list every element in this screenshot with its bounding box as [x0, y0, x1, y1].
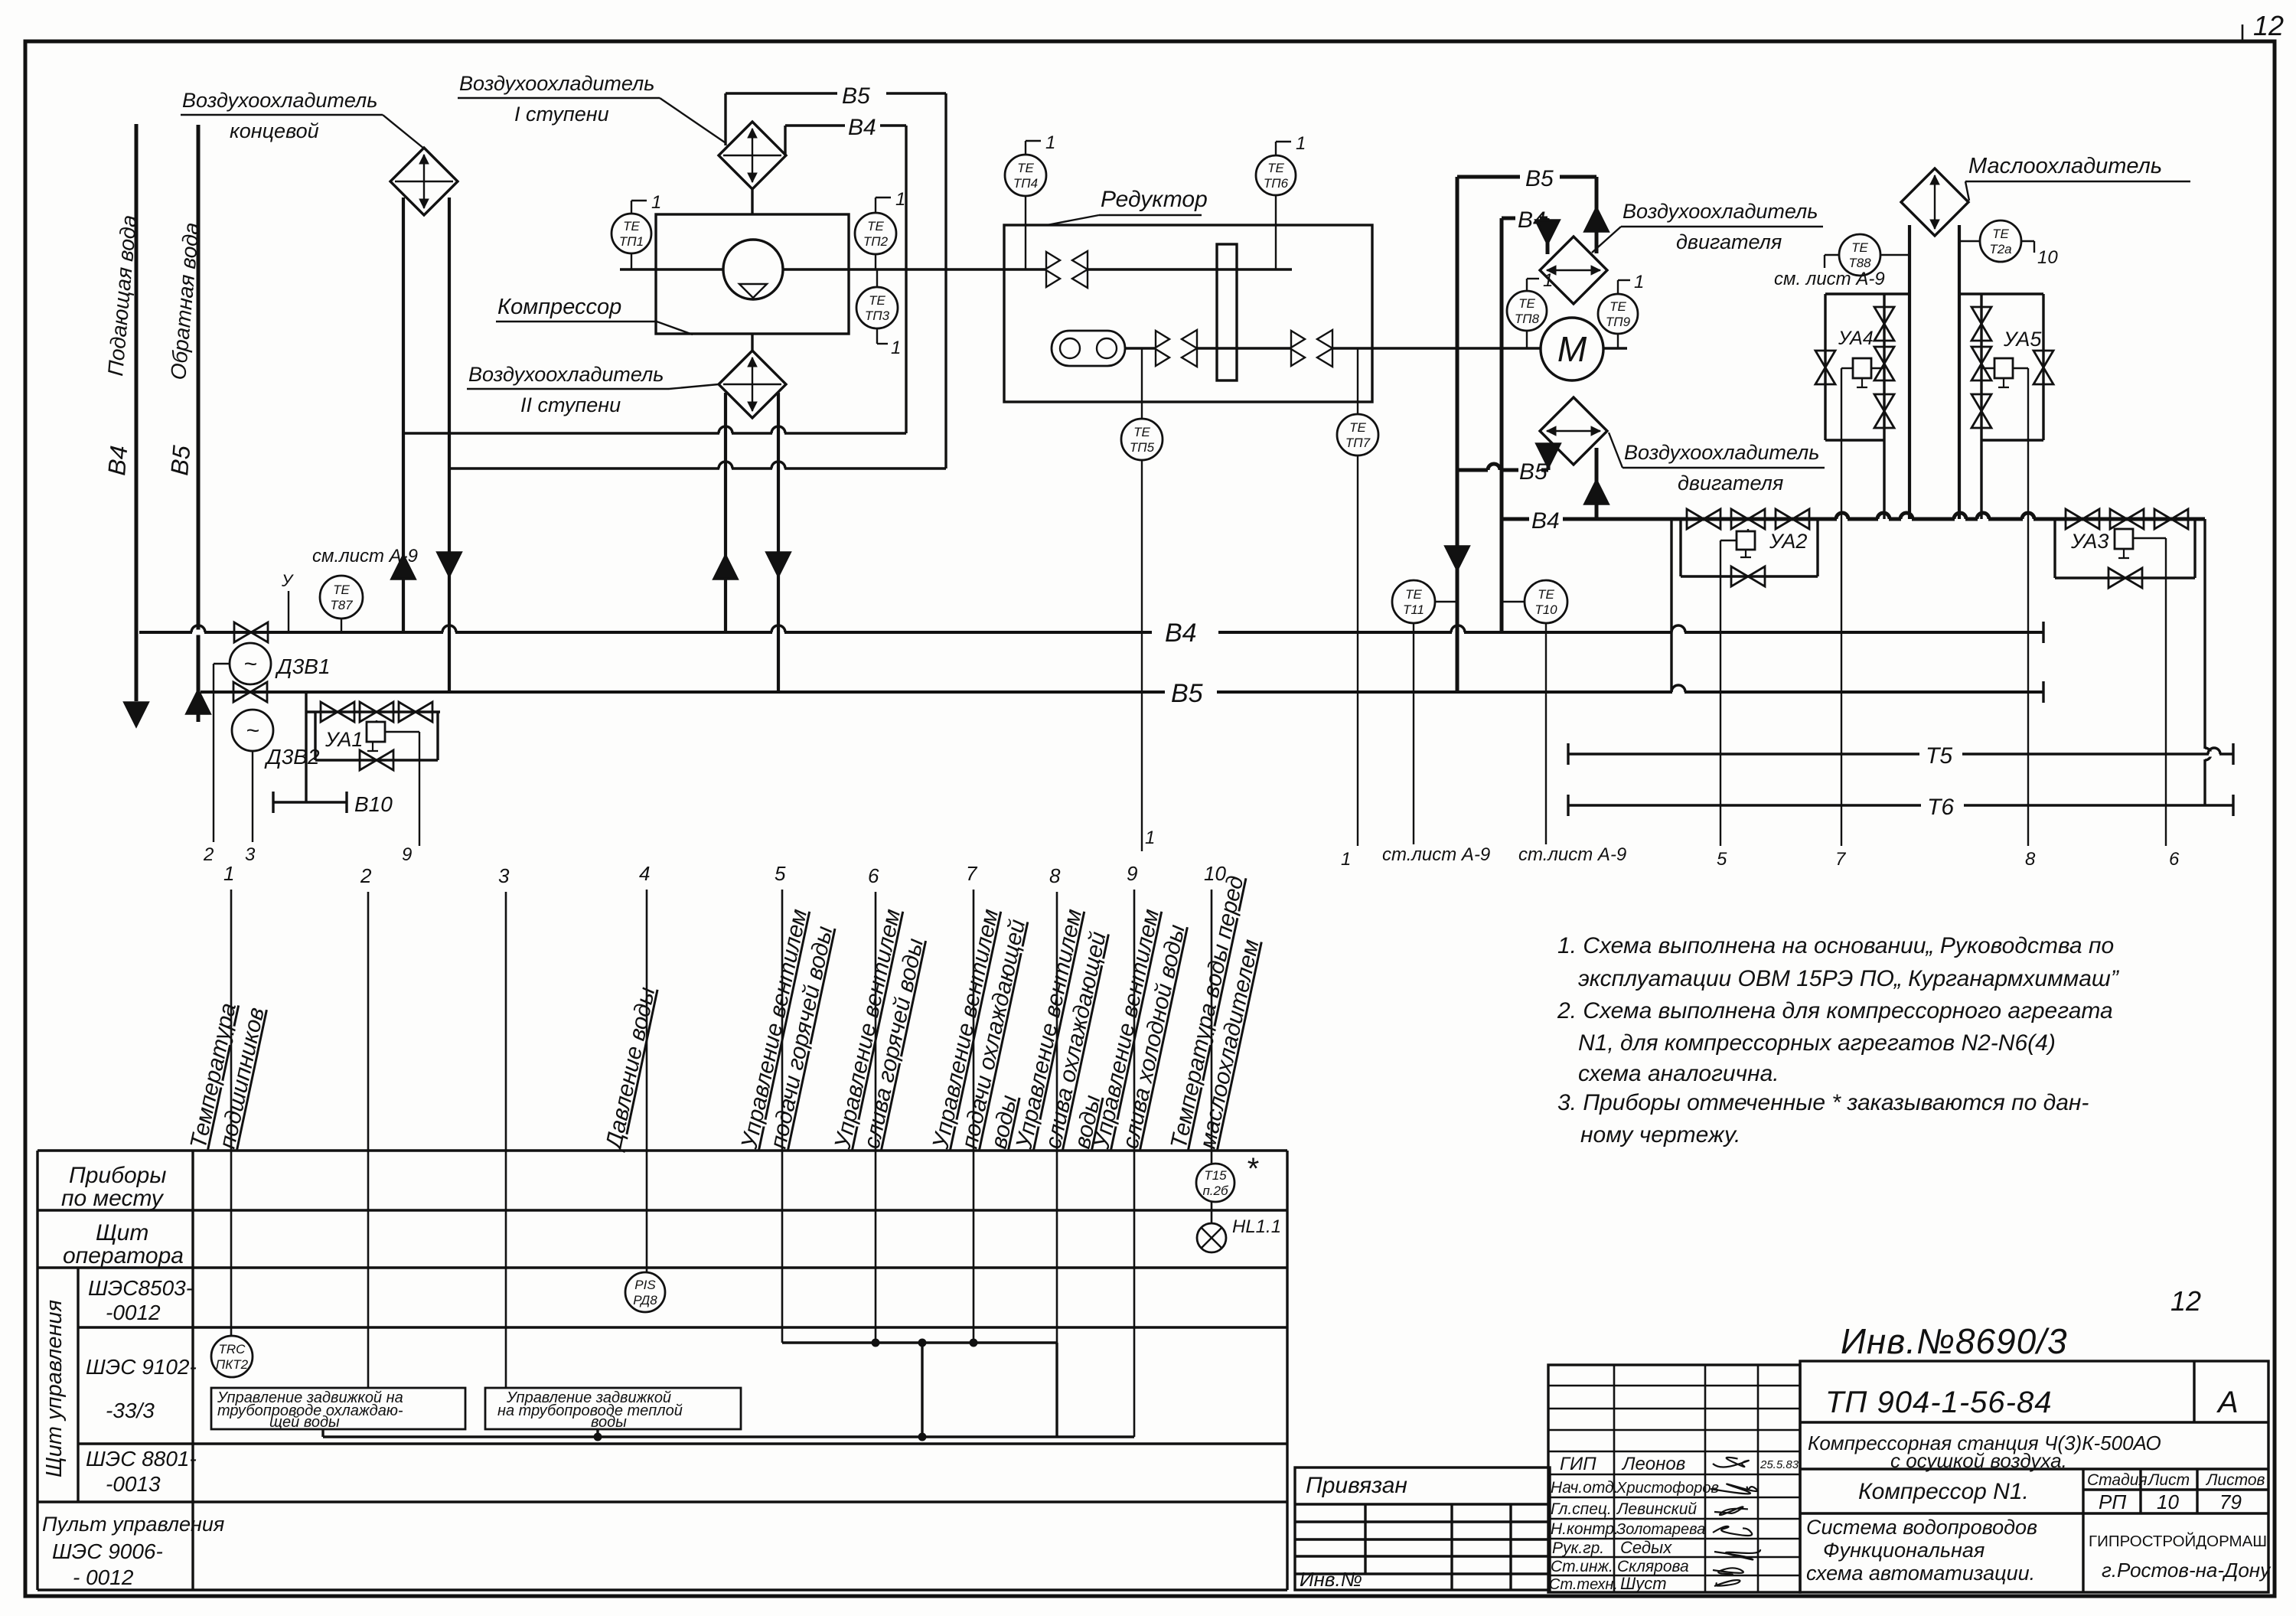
svg-text:ТЕ: ТЕ — [1851, 240, 1868, 255]
signal column 6 — [875, 892, 877, 1343]
svg-text:Система водопроводов: Система водопроводов — [1806, 1516, 2037, 1539]
svg-text:Т2а: Т2а — [1989, 242, 2011, 256]
sensor TE ТП1 — [612, 214, 651, 253]
sensor TE Т88 — [1839, 234, 1880, 276]
УА3 corner riser down — [2203, 519, 2206, 805]
arrow up on pipe 948 — [714, 556, 737, 579]
signal column 7 — [973, 890, 975, 1343]
valve УА4 bypass bowtie — [1815, 351, 1835, 367]
svg-text:ТЕ: ТЕ — [333, 583, 350, 597]
signal drop Т10 — [1545, 623, 1547, 844]
svg-text:Склярова: Склярова — [1617, 1558, 1689, 1575]
instrument TRC ПКТ2 — [211, 1336, 253, 1377]
svg-text:7: 7 — [1835, 849, 1847, 870]
sensor TE ТП8 — [1507, 291, 1547, 331]
arrow up on 2086 bottom — [1585, 481, 1608, 504]
signal column 3 — [505, 892, 507, 1387]
wire B5 return vertical (Обратная вода) — [197, 125, 201, 722]
sensor TE Т87 — [320, 576, 363, 619]
svg-text:УА5: УА5 — [2003, 328, 2042, 351]
leader to конечный cooler — [383, 115, 424, 149]
motor circle M — [1541, 318, 1603, 380]
svg-text:1: 1 — [1296, 133, 1306, 154]
svg-text:-33/3: -33/3 — [106, 1399, 155, 1422]
signal column 1 — [230, 890, 233, 1336]
svg-text:N1, для компрессорных агрегато: N1, для компрессорных агрегатов N2-N6(4) — [1578, 1030, 2056, 1056]
arrow B4 supply down — [125, 703, 148, 726]
instrument PIS РД8 — [625, 1272, 665, 1312]
svg-text:концевой: концевой — [230, 119, 319, 142]
svg-text:с осушкой воздуха.: с осушкой воздуха. — [1890, 1449, 2067, 1472]
drive Д3В1 circle — [230, 643, 271, 684]
svg-text:Т15: Т15 — [1204, 1168, 1227, 1183]
sensor TE Т10 — [1525, 580, 1567, 623]
svg-text:1: 1 — [1145, 828, 1155, 848]
wire B5 elbow bottom motor cooler — [1457, 468, 1488, 472]
valve УА2 bowtie 1 — [1687, 509, 1704, 529]
solenoid УА4 square — [1853, 358, 1871, 378]
heat exchanger Воздухоохладитель концевой — [390, 148, 458, 215]
shaft reducer lower to motor — [1332, 347, 1541, 349]
svg-text:оператора: оператора — [63, 1243, 184, 1268]
svg-text:2: 2 — [203, 844, 214, 865]
svg-text:Функциональная: Функциональная — [1823, 1539, 1985, 1562]
wire B4 main end tick — [2042, 622, 2044, 643]
svg-text:4: 4 — [639, 862, 650, 885]
svg-text:8: 8 — [2025, 849, 2036, 870]
svg-text:В4: В4 — [848, 115, 876, 140]
svg-text:УА1: УА1 — [325, 728, 363, 751]
wire T6 line — [1568, 804, 1921, 806]
wire motor cooler 2 right leg — [1595, 448, 1599, 519]
svg-text:12: 12 — [2170, 1285, 2201, 1317]
pipe конечный left down to B4 main — [402, 198, 405, 632]
shaft reducer upper — [1088, 268, 1292, 270]
УА2 bypass line — [1681, 575, 1818, 577]
valve УА5 bowtie 1 — [1971, 307, 1991, 324]
svg-text:Привязан: Привязан — [1306, 1473, 1407, 1498]
svg-text:п.2б: п.2б — [1202, 1183, 1229, 1198]
svg-text:схема автоматизации.: схема автоматизации. — [1806, 1562, 2035, 1585]
svg-text:~: ~ — [246, 718, 259, 743]
wire B4 elbow top motor cooler — [1502, 217, 1515, 220]
svg-text:6: 6 — [868, 864, 879, 887]
wire B5 branch y612 — [449, 467, 946, 469]
svg-text:PIS: PIS — [634, 1278, 656, 1292]
flag 1 of ТП6 — [1275, 142, 1277, 155]
УА4 main riser — [1883, 294, 1885, 440]
signal drop УА3 to tick 6 — [2133, 537, 2166, 539]
title row ТП 904-1-56-84 — [1800, 1421, 2268, 1423]
table divider x102 — [77, 1268, 79, 1502]
sensor TE ТП2 — [855, 213, 896, 254]
valve УА5 bowtie 2 — [1971, 347, 1991, 364]
svg-text:М: М — [1557, 329, 1587, 369]
svg-text:Стадия: Стадия — [2087, 1471, 2148, 1489]
valve УА3 bowtie 3 — [2154, 509, 2171, 529]
wire motor cooler 1 inlet right — [1595, 177, 1599, 253]
УА1 riser from B5 main — [305, 692, 307, 802]
instrument Т15 п.2б — [1196, 1164, 1234, 1202]
svg-text:1: 1 — [895, 189, 905, 210]
svg-text:ТЕ: ТЕ — [1349, 420, 1366, 435]
wire B4 supply vertical (Подающая вода) — [135, 124, 139, 701]
svg-text:Компрессор N1.: Компрессор N1. — [1858, 1479, 2029, 1504]
sensor TE Т11 — [1392, 580, 1435, 623]
svg-text:ШЭС 9102-: ШЭС 9102- — [86, 1355, 197, 1379]
УА4 top connect — [1825, 292, 1910, 295]
table divider x252 — [191, 1151, 194, 1590]
УА1 bypass right riser — [436, 712, 439, 760]
signal drop Д3В1 to tick 2 — [214, 663, 230, 664]
svg-text:РП: РП — [2099, 1490, 2126, 1513]
svg-text:1. Схема выполнена на основани: 1. Схема выполнена на основании„ Руковод… — [1557, 933, 2114, 958]
wire Т15 to HL1.1 — [1211, 1202, 1213, 1224]
svg-text:8: 8 — [1049, 864, 1061, 887]
box1 drop — [321, 1429, 324, 1437]
shaft reducer lower 1 — [1125, 347, 1156, 349]
svg-text:TRC: TRC — [219, 1342, 246, 1356]
svg-text:ТЕ: ТЕ — [1609, 299, 1626, 314]
УА4 riser to header — [1883, 440, 1885, 519]
svg-text:ТЕ: ТЕ — [1518, 296, 1535, 311]
stub cooler II to compressor box — [751, 334, 753, 351]
svg-text:воды: воды — [591, 1414, 627, 1431]
svg-text:Левинский: Левинский — [1616, 1500, 1697, 1518]
box2 drop — [596, 1429, 598, 1437]
valve УА3 bowtie 2 — [2110, 509, 2127, 529]
valve УА1 bowtie 2 — [360, 702, 377, 722]
УА5 top connect — [1959, 292, 2043, 295]
flag 1 of ТП3 — [876, 328, 878, 344]
table left edge — [36, 1151, 38, 1590]
УА5 main riser — [1980, 294, 1982, 440]
wire T5 line — [1568, 753, 1919, 755]
cells Стадия Лист Листов — [2083, 1488, 2268, 1490]
box Управление задвижкой на трубопроводе охлаждающей воды — [211, 1388, 465, 1429]
solenoid УА3 square — [2115, 529, 2133, 549]
svg-text:1: 1 — [1634, 272, 1644, 292]
signal column 5 — [781, 890, 784, 1343]
signal drop УА2 to tick 5 — [1720, 540, 1737, 541]
svg-text:В5: В5 — [842, 83, 870, 109]
svg-text:~: ~ — [243, 651, 257, 677]
signal column 9 — [1133, 890, 1136, 1437]
svg-text:5: 5 — [775, 862, 786, 885]
arrow up on pipe 527 — [392, 556, 415, 579]
sensor TE ТП5 — [1121, 419, 1163, 460]
flag 1 of ТП2 — [875, 198, 876, 213]
svg-text:Маслоохладитель: Маслоохладитель — [1968, 154, 2162, 178]
svg-text:1: 1 — [651, 192, 661, 213]
coupling tall rect — [1217, 244, 1237, 380]
valve УА1 bowtie 1 — [321, 702, 338, 722]
svg-text:-0012: -0012 — [106, 1301, 161, 1324]
svg-text:см.лист А-9: см.лист А-9 — [312, 546, 418, 566]
jump mark on B5 main — [1672, 690, 1684, 695]
svg-text:Рук.гр.: Рук.гр. — [1552, 1539, 1604, 1557]
wire B5 branch riser x1236 — [944, 93, 947, 468]
signal drop ТП7 to tick 1 — [1357, 455, 1358, 846]
svg-text:Инв.№: Инв.№ — [1300, 1568, 1362, 1591]
svg-text:схема аналогична.: схема аналогична. — [1578, 1061, 1779, 1086]
signal drop УА4 to tick 7 — [1841, 367, 1853, 369]
svg-text:1: 1 — [223, 862, 234, 885]
svg-text:-0013: -0013 — [106, 1472, 161, 1496]
УА4 bypass riser — [1824, 294, 1826, 440]
wire B5 elbow to label — [724, 93, 726, 145]
svg-text:см. лист А-9: см. лист А-9 — [1774, 269, 1885, 289]
valve УА5 bypass bowtie — [2033, 351, 2053, 367]
svg-text:ТЕ: ТЕ — [1133, 425, 1150, 439]
svg-text:3. Приборы отмеченные * заказы: 3. Приборы отмеченные * заказываются по … — [1557, 1090, 2089, 1115]
heat exchanger Воздухоохладитель двигателя 2 — [1540, 397, 1607, 465]
svg-text:Воздухоохладитель: Воздухоохладитель — [182, 89, 377, 112]
shaft compressor to reducer — [783, 268, 1046, 270]
signal drop УА5 to tick 8 — [2013, 367, 2028, 369]
svg-text:двигателя: двигателя — [1676, 230, 1782, 253]
svg-text:ТЕ: ТЕ — [869, 293, 885, 308]
sensor TE Т12а — [1980, 220, 2021, 262]
svg-text:Щит управления: Щит управления — [42, 1300, 67, 1477]
svg-text:А: А — [2216, 1386, 2239, 1419]
svg-text:ГИП: ГИП — [1560, 1454, 1596, 1474]
title row Компрессорная станция — [1800, 1467, 2268, 1470]
svg-text:В5: В5 — [1525, 166, 1554, 191]
signal column 8 — [1056, 892, 1058, 1343]
svg-text:3: 3 — [245, 844, 256, 865]
УА3 bypass right riser — [2193, 519, 2196, 578]
bus1 to bus2 vertical x1381 — [1055, 1343, 1058, 1437]
svg-text:ТЕ: ТЕ — [1992, 227, 2009, 241]
УА2 bypass left riser — [1679, 519, 1681, 576]
personnel table outer — [1548, 1365, 1800, 1592]
heat exchanger Воздухоохладитель II ступени — [719, 351, 786, 418]
wire B5 riser x1904 — [1456, 177, 1459, 692]
svg-text:ШЭС8503-: ШЭС8503- — [88, 1276, 193, 1300]
svg-text:на трубопроводе теплой: на трубопроводе теплой — [497, 1402, 683, 1419]
svg-text:ТП 904-1-56-84: ТП 904-1-56-84 — [1825, 1386, 2052, 1419]
svg-text:5: 5 — [1717, 849, 1727, 870]
shaft compressor left — [620, 268, 723, 270]
oval chain coupling — [1052, 331, 1125, 366]
arrow down on 2022 — [1536, 220, 1559, 243]
wire motor cooler 1 inlet left — [1546, 218, 1550, 254]
oil pipe left — [1908, 225, 1911, 519]
svg-text:Воздухоохладитель: Воздухоохладитель — [459, 72, 654, 95]
svg-text:II ступени: II ступени — [520, 393, 621, 416]
jump marks on B4 main — [192, 630, 204, 635]
УА1 header — [306, 710, 440, 713]
svg-text:Воздухоохладитель: Воздухоохладитель — [1624, 441, 1819, 464]
svg-text:Н.контр.: Н.контр. — [1551, 1520, 1619, 1538]
bus1 to bus2 vertical x1205 — [921, 1343, 923, 1437]
svg-text:6: 6 — [2169, 849, 2180, 870]
svg-text:щей воды: щей воды — [269, 1414, 340, 1431]
svg-text:Шуст: Шуст — [1620, 1574, 1667, 1593]
svg-text:ТП1: ТП1 — [619, 234, 644, 249]
svg-text:Золотарева: Золотарева — [1616, 1521, 1705, 1538]
svg-text:Т6: Т6 — [1927, 795, 1954, 820]
flag Т88 см.лист А-9 — [1825, 254, 1839, 256]
arrow down on pipe 1017 — [767, 553, 790, 576]
leader cooler dvig 1 — [1592, 227, 1621, 253]
svg-text:12: 12 — [2253, 10, 2284, 41]
flag 10 of Т12а — [2021, 240, 2034, 242]
svg-text:В10: В10 — [354, 792, 393, 816]
wire B5 main horizontal — [201, 690, 1165, 694]
wire B4 elbow to label — [784, 126, 786, 155]
shaft reducer lower 2 — [1196, 347, 1292, 349]
svg-text:ТЕ: ТЕ — [1538, 587, 1554, 602]
flag 1 of ТП1 — [631, 201, 632, 214]
svg-text:ШЭС 9006-: ШЭС 9006- — [52, 1539, 163, 1563]
wire B5 elbow top motor cooler — [1457, 175, 1520, 179]
heat exchanger Воздухоохладитель двигателя 1 — [1540, 237, 1607, 304]
svg-text:Ст.техн.: Ст.техн. — [1549, 1576, 1618, 1593]
title block outer — [1800, 1361, 2268, 1592]
wire B4 riser x1962 — [1500, 218, 1504, 632]
svg-text:В5: В5 — [1519, 459, 1548, 485]
svg-text:В4: В4 — [1165, 619, 1197, 648]
signal column 4 — [646, 890, 648, 1272]
bus2 y1877 — [323, 1435, 1134, 1438]
signal stub У — [288, 591, 289, 632]
svg-text:Д3В1: Д3В1 — [275, 655, 331, 678]
svg-text:Т87: Т87 — [330, 598, 353, 612]
leader Компрессор — [657, 322, 693, 335]
valve УА3 bypass bowtie — [2108, 568, 2125, 588]
svg-text:РД8: РД8 — [633, 1293, 657, 1307]
wire B4 branch riser x1184 — [905, 126, 907, 433]
box Управление задвижкой на трубопроводе теплой воды — [485, 1388, 741, 1429]
svg-text:ТЕ: ТЕ — [623, 219, 640, 233]
svg-text:Лист: Лист — [2147, 1471, 2190, 1489]
svg-text:1: 1 — [1341, 849, 1351, 870]
lamp HL1.1 — [1197, 1223, 1226, 1252]
stub cooler I to compressor box — [751, 189, 753, 214]
reducer box Редуктор — [1004, 225, 1372, 402]
svg-text:Воздухоохладитель: Воздухоохладитель — [1623, 200, 1818, 223]
svg-text:Нач.отд.: Нач.отд. — [1551, 1479, 1619, 1497]
valve Д3В2 on B5 main — [233, 682, 250, 702]
svg-text:Пульт управления: Пульт управления — [42, 1513, 224, 1536]
pipe cooler II right to B5 main — [777, 393, 780, 692]
svg-text:10: 10 — [2037, 247, 2058, 268]
svg-text:Листов: Листов — [2205, 1471, 2265, 1489]
svg-text:В4: В4 — [103, 444, 132, 476]
svg-text:ТП6: ТП6 — [1264, 176, 1289, 191]
Привязан block columns — [1364, 1504, 1366, 1574]
table right edge — [1286, 1151, 1288, 1590]
svg-text:Инв.№8690/3: Инв.№8690/3 — [1841, 1321, 2068, 1361]
УА5 bypass riser — [2042, 294, 2044, 440]
УА2 bypass right riser — [1816, 519, 1818, 576]
svg-text:ТП7: ТП7 — [1345, 436, 1371, 450]
svg-text:Воздухоохладитель: Воздухоохладитель — [468, 363, 664, 386]
personnel rows — [1548, 1385, 1800, 1387]
svg-text:*: * — [1246, 1152, 1259, 1186]
svg-text:Т11: Т11 — [1403, 602, 1424, 617]
svg-text:ТЕ: ТЕ — [1405, 587, 1422, 602]
shaft motor right stub — [1603, 347, 1627, 349]
valve УА2 bowtie 3 — [1776, 509, 1792, 529]
svg-text:Редуктор: Редуктор — [1101, 187, 1208, 212]
gear mesh 3 — [1291, 331, 1305, 348]
valve УА2 bowtie 2 — [1731, 509, 1748, 529]
sensor TE ТП4 — [1005, 155, 1046, 196]
valve УА1 bypass bowtie — [360, 750, 377, 770]
svg-text:2: 2 — [360, 864, 372, 887]
leader Маслоохладитель — [1965, 181, 1969, 201]
svg-text:ТЕ: ТЕ — [1017, 161, 1034, 175]
cell Компрессор N1 — [1800, 1512, 2083, 1514]
svg-text:У: У — [281, 571, 294, 590]
svg-text:Т5: Т5 — [1926, 743, 1952, 769]
УА3 bypass left riser — [2053, 519, 2056, 578]
drive Д3В2 circle — [232, 710, 273, 751]
svg-text:г.Ростов-на-Дону: г.Ростов-на-Дону — [2102, 1559, 2272, 1582]
wire B4 main horizontal — [139, 631, 1152, 634]
signal drop Т11 — [1413, 623, 1414, 844]
УА4 bottom connect — [1825, 439, 1884, 441]
valve УА1 bowtie 3 — [399, 702, 416, 722]
bus1 y1754 — [782, 1341, 1057, 1343]
heat exchanger Воздухоохладитель I ступени — [719, 122, 786, 189]
svg-text:3: 3 — [498, 864, 510, 887]
jump marks on header — [1837, 517, 1848, 522]
sheet tick 12 top right — [2242, 24, 2244, 41]
svg-text:2. Схема выполнена для компрес: 2. Схема выполнена для компрессорного аг… — [1557, 998, 2113, 1023]
svg-text:ТП5: ТП5 — [1130, 440, 1155, 455]
title divider x2722 — [2082, 1469, 2084, 1592]
flag 1 of ТП8 — [1526, 279, 1528, 291]
УА1 bypass — [315, 759, 438, 761]
svg-text:Щит: Щит — [96, 1220, 148, 1245]
svg-text:79: 79 — [2219, 1490, 2242, 1513]
wire riser x2184 header to B5 main — [1670, 519, 1672, 692]
svg-text:В5: В5 — [1171, 679, 1203, 708]
svg-text:по месту: по месту — [61, 1186, 165, 1211]
valve Д3В1 on B4 main — [234, 622, 251, 642]
sensor TE ТП7 — [1337, 414, 1378, 455]
wire B4 branch y566 — [403, 432, 906, 434]
svg-text:двигателя: двигателя — [1678, 472, 1783, 495]
flag 1 of ТП9 — [1617, 280, 1619, 294]
svg-text:УА4: УА4 — [1838, 328, 1874, 349]
svg-text:УА3: УА3 — [2070, 530, 2108, 553]
solenoid УА2 square — [1737, 531, 1755, 550]
svg-text:ТП3: ТП3 — [865, 309, 890, 323]
svg-text:9: 9 — [1127, 862, 1137, 885]
УА1 bypass left riser — [314, 712, 316, 760]
svg-text:Ст.инж.: Ст.инж. — [1551, 1558, 1613, 1575]
arrow B5 return up — [187, 690, 210, 713]
svg-text:ТП9: ТП9 — [1606, 315, 1631, 329]
flag 1 of ТП4 — [1025, 141, 1026, 155]
svg-text:10: 10 — [2157, 1490, 2179, 1513]
svg-text:Д3В2: Д3В2 — [264, 745, 320, 769]
svg-text:Т10: Т10 — [1534, 602, 1557, 617]
svg-text:I ступени: I ступени — [514, 103, 609, 126]
УА3 bypass line — [2055, 576, 2195, 579]
leader to cooler I — [660, 98, 725, 142]
svg-text:ст.лист А-9: ст.лист А-9 — [1382, 844, 1490, 865]
svg-text:ТЕ: ТЕ — [867, 219, 884, 233]
svg-text:Леонов: Леонов — [1621, 1454, 1685, 1474]
УА5 riser to header — [1980, 440, 1982, 519]
svg-text:ШЭС 8801-: ШЭС 8801- — [86, 1447, 197, 1471]
